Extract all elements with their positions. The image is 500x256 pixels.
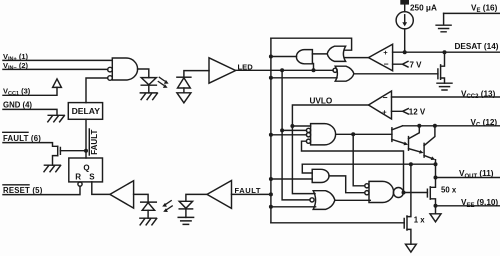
wire VE xyxy=(444,12,500,14)
transistor Q6 50x MOSFET xyxy=(427,187,430,199)
logic gate G1 (4-input AND, gate drive) xyxy=(311,124,336,145)
wire U1 output to LED1 xyxy=(138,69,149,78)
wire AND2 lower input stub to LED line xyxy=(313,64,315,71)
wire G1 input3 from rail A xyxy=(271,134,307,136)
G1 input bubbles xyxy=(306,128,310,132)
earth ground under Q4 xyxy=(437,83,452,90)
transistor Q1 darlington xyxy=(391,128,393,142)
wire VCC2 line to UVLO xyxy=(392,96,500,98)
wire S input from AMP3 xyxy=(92,182,110,195)
chassis ground GND xyxy=(48,115,65,122)
op-amp UVLO comparator (points left) xyxy=(369,91,392,119)
transistor Q7 1x MOSFET xyxy=(404,216,407,230)
G4 input bubbles xyxy=(365,184,369,188)
wire G2 input2 from rail A xyxy=(271,178,312,180)
wire 12V reference to UVLO comparator xyxy=(392,109,409,114)
pin DESAT (14) label xyxy=(455,42,499,51)
node LED line / AND2 stub xyxy=(312,68,316,72)
wire G4 output to 50x gate xyxy=(403,192,427,194)
wire LED2 anode from AMP2 output xyxy=(186,194,207,201)
node DESAT / blanking MOSFET xyxy=(443,50,447,54)
svg-text:1 x: 1 x xyxy=(414,215,426,224)
node L1 / 1x drain vertical xyxy=(409,162,413,166)
logic gate G2 (soft-shutdown AND) xyxy=(312,169,329,182)
wire AND2 output to rail A xyxy=(271,56,297,58)
node rail A / G1 input xyxy=(269,133,273,137)
node rail A / OR2 input xyxy=(269,76,273,80)
wire 1x drain vertical to L1 xyxy=(407,164,411,216)
wire VCC1 xyxy=(3,87,57,95)
wire OR2 output to DESAT blanking MOSFET gate xyxy=(354,73,438,75)
FAULT label near AMP2 xyxy=(235,186,262,195)
node wrap1 / G4 output line xyxy=(402,191,406,195)
label UVLO xyxy=(310,97,333,106)
svg-text:50 x: 50 x xyxy=(441,185,457,194)
R input bubble xyxy=(78,182,82,186)
svg-text:R: R xyxy=(75,173,81,182)
wire Q5 gate to FAULT net xyxy=(60,150,86,152)
node FAULT net junction (Q5 gate tap) xyxy=(84,149,88,153)
svg-text:−: − xyxy=(384,59,389,69)
pin VCC2 (13) label xyxy=(461,89,496,100)
wire UVLO output to rail C xyxy=(292,105,368,194)
chassis ground under Q5 xyxy=(44,165,61,172)
wire G2 input1 wrap from L1 xyxy=(302,164,312,173)
wire output stack vertical (emitter to 50x drain) xyxy=(430,160,435,188)
node DESAT / current source xyxy=(403,50,407,54)
node VOUT xyxy=(434,176,438,180)
wire G2 output to G4 input2 xyxy=(329,176,365,193)
svg-text:DESAT (14): DESAT (14) xyxy=(455,42,499,51)
node rail B / G1 input xyxy=(280,128,284,132)
wire VC line xyxy=(403,125,500,127)
wire FAULT net: DELAY bottom to flip-flop top xyxy=(85,119,87,158)
svg-text:Q: Q xyxy=(83,163,89,172)
logic gate G3 (3-input OR) xyxy=(313,191,335,210)
VEE open arrow under 50x xyxy=(430,214,441,222)
VEE open arrow under PD1 xyxy=(177,93,191,103)
svg-text:GND (4): GND (4) xyxy=(3,101,32,110)
wire rail B LED signal vertical xyxy=(282,70,310,200)
VCC1 up-arrow symbol xyxy=(53,79,62,88)
logic gate AND2 (mirrored, latch AND) xyxy=(296,50,312,64)
node L1 / output vertical xyxy=(434,162,438,166)
wire OR2 lower input from rail A xyxy=(271,77,337,79)
node rail C / G1 input xyxy=(290,124,294,128)
transistor Q3 darlington xyxy=(423,143,425,157)
svg-text:12 V: 12 V xyxy=(409,108,426,117)
node LED line / rail B xyxy=(280,68,284,72)
wire DELAY top to AND gate third input bubble xyxy=(86,78,108,103)
op-amp AMP1 LED receive buffer (points right) xyxy=(209,58,236,83)
earth ground VE xyxy=(436,13,451,31)
flip-flop box xyxy=(69,158,103,182)
svg-text:FAULT: FAULT xyxy=(235,186,262,195)
LED2 fault transmit LED xyxy=(179,201,192,208)
wire G3 output under G4 xyxy=(335,199,370,201)
light arrows input optocoupler (pointing right-down) xyxy=(158,77,164,85)
wire Q5 source to chassis xyxy=(53,156,58,166)
svg-text:7 V: 7 V xyxy=(410,61,423,70)
wire LED signal line to OR2 bubble xyxy=(236,69,333,71)
light arrows fault optocoupler (pointing left-down) xyxy=(166,201,172,210)
label LED xyxy=(238,62,254,71)
pin VC (12) label xyxy=(471,118,498,129)
wire OR1 output to AND2 input xyxy=(312,53,327,55)
logic gate OR1 (mirrored, latch OR) xyxy=(327,46,345,61)
wire VOUT line xyxy=(436,177,500,179)
node rail A / AMP2 input xyxy=(269,192,273,196)
pin GND (4) label xyxy=(3,101,32,110)
wire 1x source to ground arrow xyxy=(407,229,411,244)
node VC / Q3 collector xyxy=(433,124,437,128)
logic gate G4 (output NAND) xyxy=(369,181,394,202)
pin RESET (5) label with overline xyxy=(3,186,43,195)
wire VIN- to input AND gate bubble xyxy=(3,68,108,70)
wire 50x source to VEE xyxy=(430,199,435,214)
pin VCC1 (3) label xyxy=(3,87,31,98)
svg-text:DELAY: DELAY xyxy=(72,106,101,116)
logic gate U1 input AND gate xyxy=(112,58,137,80)
svg-text:FAULT (6): FAULT (6) xyxy=(3,134,41,143)
chassis ground under PD2 xyxy=(140,218,157,225)
chassis ground (shield) under LED1 xyxy=(140,93,157,100)
svg-text:+: + xyxy=(383,48,388,57)
transistor Q4 DESAT blanking MOSFET xyxy=(438,65,441,79)
wire VEE line xyxy=(436,205,500,207)
svg-text:−: − xyxy=(383,93,388,103)
photodiode PD2 (fault optocoupler receiver) xyxy=(141,201,157,203)
VEE open arrow under 1x xyxy=(406,244,417,252)
G4 output bubble xyxy=(393,188,403,198)
wire DESAT comparator output to OR1 input xyxy=(345,57,368,59)
svg-text:+: + xyxy=(382,108,387,117)
wire G4 input1 feed xyxy=(353,134,365,186)
node G1 output / G4 feed xyxy=(351,132,355,136)
pin VIN+ (1) label xyxy=(3,52,28,63)
input bubbles on U1 xyxy=(108,67,113,72)
node VC / Q2 collector xyxy=(417,124,421,128)
LED1 input LED xyxy=(141,78,156,85)
G3 input bubble xyxy=(310,198,314,202)
pin VEE (9,10) label xyxy=(461,198,498,209)
wire L1 output sense line xyxy=(302,163,435,165)
wire G1 input4 wrap from gate-drive node xyxy=(302,141,404,192)
svg-text:S: S xyxy=(89,173,95,182)
node rail A / G3 input xyxy=(269,205,273,209)
current source 250uA xyxy=(400,0,409,5)
rotated FAULT label with overline xyxy=(88,129,90,155)
wire AMP2 input from fault logic rail A xyxy=(232,193,271,195)
transistor Q5 fault open-drain MOSFET xyxy=(58,146,61,155)
pin FAULT (6) label with overline xyxy=(3,134,41,143)
transistor Q2 darlington xyxy=(408,137,410,151)
OR2 input bubble xyxy=(333,68,337,72)
node rail A / AND2 output xyxy=(269,55,273,59)
wire rail A fault latch vertical xyxy=(270,38,272,223)
wire G1 input2 from rail B xyxy=(282,129,306,131)
wire AMP3 input from photodiode PD2 xyxy=(134,194,149,202)
wire DESAT line xyxy=(393,51,500,53)
node rail A / G2 input xyxy=(269,177,273,181)
wire GND xyxy=(3,109,57,115)
svg-text:250 μA: 250 μA xyxy=(410,3,437,12)
pin VIN- (2) label xyxy=(3,61,28,72)
logic gate OR2 (LED/fault combine) xyxy=(335,66,354,81)
earth ground under LED2 xyxy=(178,217,193,224)
wire FAULT(6) to open-drain MOSFET drain xyxy=(3,143,58,147)
wire G3 input3 from rail A xyxy=(271,206,316,208)
wire RESET to R input bubble xyxy=(3,186,80,194)
wire rail A to 1x gate xyxy=(271,222,404,224)
wire top latch feedback rail xyxy=(271,38,352,50)
DELAY box xyxy=(68,103,102,120)
wire VIN+ to input AND gate xyxy=(3,59,112,61)
svg-text:FAULT: FAULT xyxy=(90,130,99,155)
op-amp DESAT comparator (points left) xyxy=(369,44,393,71)
op-amp AMP2 fault driver (points left) xyxy=(207,181,232,209)
wire G1 input1 from UVLO rail xyxy=(292,125,310,127)
pin VE (16) label xyxy=(471,4,498,15)
pin VOUT (11) label xyxy=(459,169,494,180)
wire G1 output to Q1 base xyxy=(336,133,392,135)
node VEE xyxy=(434,204,438,208)
op-amp AMP3 fault receive buffer (points left) xyxy=(110,181,134,208)
svg-text:RESET (5): RESET (5) xyxy=(3,186,43,195)
wire 7V reference to DESAT comparator xyxy=(393,61,408,67)
photodiode PD1 input optocoupler receiver xyxy=(177,76,191,78)
wire PD1 to AMP1 xyxy=(184,71,209,78)
